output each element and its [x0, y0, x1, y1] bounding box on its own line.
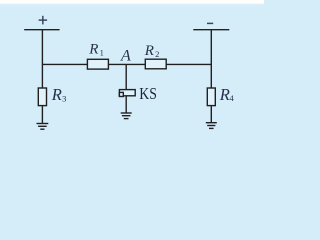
svg-text:R: R	[88, 42, 98, 58]
sensor KS body	[119, 90, 135, 96]
svg-text:KS: KS	[139, 84, 157, 103]
wire: right vertical upper	[210, 30, 212, 89]
svg-text:R: R	[144, 43, 154, 59]
wire: main horizontal bus	[42, 63, 211, 65]
wire: left vertical upper	[41, 30, 43, 89]
ground under KS	[121, 113, 132, 119]
node + terminal: plus sign	[39, 16, 48, 25]
wire: right terminal bar	[193, 29, 229, 31]
resistor R3	[38, 88, 46, 106]
node - terminal: minus sign	[207, 22, 213, 24]
resistor R4	[207, 88, 215, 106]
resistor R2	[145, 59, 166, 69]
resistor R1	[87, 59, 108, 69]
wire: left terminal bar	[24, 29, 59, 31]
wire: KS branch upper	[125, 64, 127, 89]
wire: right vertical lower	[210, 105, 212, 122]
wire: KS branch lower	[125, 96, 127, 113]
ground under R3	[37, 124, 49, 130]
svg-text:A: A	[120, 48, 131, 65]
svg-text:3: 3	[62, 93, 66, 103]
svg-text:2: 2	[155, 49, 159, 59]
svg-text:R: R	[51, 85, 62, 104]
sensor KS corner square	[119, 92, 123, 96]
svg-text:R: R	[219, 85, 230, 104]
wire: left vertical lower	[41, 105, 43, 123]
ground under R4	[206, 123, 217, 129]
svg-text:1: 1	[100, 47, 104, 57]
